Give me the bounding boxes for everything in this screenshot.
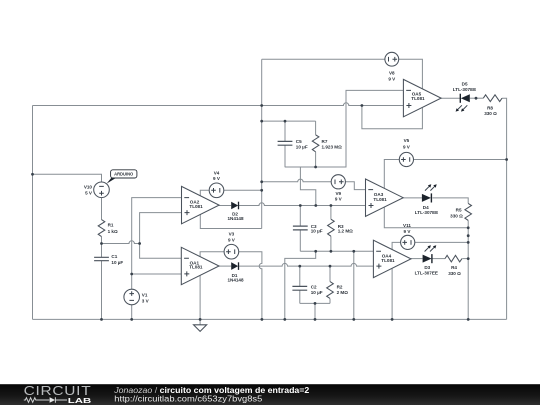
svg-text:10 µF: 10 µF — [311, 229, 323, 234]
wire D4 to R5 corner — [432, 198, 468, 204]
svg-text:V10: V10 — [84, 185, 93, 190]
svg-text:V9: V9 — [335, 191, 341, 196]
svg-text:R1: R1 — [108, 223, 114, 228]
voltage source V11 9V — [401, 223, 415, 249]
node dot V11 x468 — [467, 241, 470, 244]
node dot C5 top — [284, 120, 287, 123]
wire C2 R2 bottom bus — [300, 302, 330, 304]
node dot rail x468 — [467, 318, 470, 321]
svg-text:1N4148: 1N4148 — [227, 278, 244, 283]
op-amp OA2 TL081 — [182, 186, 220, 223]
svg-text:3 V: 3 V — [142, 298, 150, 303]
node dot C2 top — [298, 265, 301, 268]
node dot net X V9 line — [260, 180, 263, 183]
svg-text:1.923 MΩ: 1.923 MΩ — [322, 145, 343, 150]
wire V10 bottom to R1 — [101, 198, 103, 220]
wire OA4 V- stub to rail — [391, 268, 393, 319]
node dot D5 R8 joint — [475, 97, 478, 100]
wire OA5 output to D5 — [441, 97, 460, 99]
ARDUINO label callout — [107, 170, 137, 184]
svg-text:V8: V8 — [389, 71, 395, 76]
node dot net X V4 — [260, 189, 263, 192]
wire bottom ground rail — [33, 318, 507, 320]
wire C1 bottom to rail — [101, 261, 103, 320]
ground — [194, 319, 207, 331]
wire D3 to R4 — [432, 258, 445, 260]
node dot OA3 V- x468 — [467, 226, 470, 229]
wire V9 right to OA3 - input — [345, 182, 365, 190]
svg-text:V11: V11 — [403, 223, 411, 228]
wire R8 to right rail corner — [502, 98, 507, 319]
svg-text:V5: V5 — [404, 138, 410, 143]
wire C3 top leg — [299, 206, 301, 226]
voltage source V3 9V — [224, 232, 239, 259]
resistor R7 — [312, 135, 342, 152]
wire R2 top leg — [329, 266, 331, 282]
wire top run to V8 — [262, 58, 385, 60]
wire V1 bottom to rail — [131, 305, 133, 320]
wire C2R2 bus drop to rail — [314, 303, 316, 319]
svg-text:V3: V3 — [229, 232, 235, 237]
diode D1 1N4148 — [227, 262, 244, 282]
svg-text:http://circuitlab.com/c653zy7b: http://circuitlab.com/c653zy7bvg8s5 — [114, 394, 263, 403]
capacitor C3 — [293, 224, 323, 234]
svg-text:9 V: 9 V — [335, 197, 343, 202]
wire V4 right to net X — [224, 189, 262, 191]
voltage source V9 9V — [331, 175, 345, 202]
wire OA1 V- stub to rail — [199, 275, 201, 319]
svg-text:330 Ω: 330 Ω — [448, 271, 461, 276]
wire R5 bottom long vertical to rail — [467, 220, 469, 319]
capacitor C5 — [278, 139, 308, 150]
wire R3 top leg — [330, 206, 332, 220]
wire net X vertical — [261, 59, 263, 228]
wire OA4 output to D3 — [411, 258, 423, 260]
node dot rail V1 — [130, 318, 133, 321]
op-amp OA4 TL081 — [373, 240, 411, 277]
wire net X to V9 left, hop over x=300.4 — [262, 179, 332, 182]
wire V10 top branch — [33, 174, 102, 182]
svg-text:9 V: 9 V — [213, 176, 221, 181]
svg-text:10 µF: 10 µF — [296, 145, 308, 150]
node dot C3 top — [299, 204, 302, 207]
op-amp OA5 TL081 — [403, 79, 441, 116]
resistor R4 — [445, 255, 462, 276]
wire D1 to OA4 + input, hops at 284.8 and 353.8 — [239, 263, 373, 266]
wire top horizontal to OA5 + input, hop over x=346 — [33, 103, 404, 106]
svg-text:TL081: TL081 — [189, 265, 203, 270]
resistor R8 — [483, 95, 502, 116]
logo diode glyph — [50, 397, 56, 403]
svg-text:D5: D5 — [462, 81, 468, 86]
voltage source V8 9V — [385, 52, 399, 81]
FOOTER — [0, 384, 540, 405]
svg-text:R8: R8 — [487, 106, 493, 111]
wire OA1 V+ stub to V3 — [200, 252, 224, 257]
op-amp OA3 TL081 — [366, 179, 404, 216]
svg-text:330 Ω: 330 Ω — [484, 111, 497, 116]
wire OA3 V- stub to x=468 — [384, 207, 468, 228]
svg-text:TL081: TL081 — [189, 204, 203, 209]
svg-text:LTL-307EE: LTL-307EE — [453, 87, 476, 92]
wire R7 bottom leg — [315, 152, 317, 167]
wire OA2 + input to node down to OA1 - input — [140, 213, 182, 259]
wire D5 to R8 — [470, 97, 484, 99]
node dot rail V3 — [261, 318, 264, 321]
node dot net X top plus line — [260, 104, 263, 107]
wire V8 right to OA5 V+ stub — [399, 59, 423, 89]
wire C5 R7 top bus — [262, 120, 316, 122]
resistor R1 — [98, 220, 118, 237]
node dot R1/C1 — [100, 242, 103, 245]
wire R2 bottom leg — [329, 299, 331, 304]
wire OA2 output to D2 — [219, 205, 231, 207]
svg-text:R2: R2 — [337, 285, 343, 290]
wire left border vertical (net to OA5 + input) — [32, 106, 34, 320]
wire OA5 V- loop — [362, 106, 423, 129]
svg-text:1N4148: 1N4148 — [227, 216, 244, 221]
svg-text:ARDUINO: ARDUINO — [114, 172, 134, 177]
node dot R3 top — [330, 204, 333, 207]
voltage source V4 9V — [209, 170, 224, 197]
node dot V5 right rail — [505, 158, 508, 161]
node dot rail x315 — [314, 318, 317, 321]
wire C3 bottom leg — [299, 230, 301, 251]
LED D3 LTL-307EE — [415, 245, 438, 275]
node dot OA5 V- tap — [361, 104, 364, 107]
node dot R7 bottom — [314, 166, 317, 169]
svg-text:9 V: 9 V — [403, 144, 411, 149]
wire R7 top leg — [315, 121, 317, 135]
node dot rail x353.8 — [352, 318, 355, 321]
svg-text:D3: D3 — [424, 265, 430, 270]
voltage source V5 9V — [399, 138, 413, 166]
capacitor C1 — [94, 254, 123, 265]
wire C2 top leg — [299, 266, 301, 286]
resistor R2 — [327, 282, 349, 299]
capacitor C2 — [292, 285, 322, 296]
LED D5 LTL-307EE — [453, 81, 476, 111]
node dot OA2+ drop — [138, 242, 141, 245]
svg-text:10 µF: 10 µF — [111, 260, 123, 265]
wire OA1 output to D1 — [219, 265, 231, 267]
svg-text:TL081: TL081 — [381, 258, 395, 263]
wire C5R7 bottom jog down to OA3 + line — [300, 167, 315, 206]
node dot C2R2 bus drop — [314, 302, 317, 305]
node dot rail ground — [199, 318, 202, 321]
svg-text:V1: V1 — [142, 292, 148, 297]
wire OA3 output to D4 — [403, 197, 422, 199]
svg-text:10 µF: 10 µF — [311, 290, 323, 295]
wire OA2 - input down to V1 top — [132, 198, 182, 290]
wire OA2 V+ stub to V4 — [200, 190, 209, 196]
wire R3 bottom leg — [330, 236, 332, 251]
node dot OA1+ / V1 — [130, 273, 133, 276]
svg-text:TL081: TL081 — [411, 96, 425, 101]
svg-text:R7: R7 — [322, 139, 328, 144]
svg-text:LTL-307EE: LTL-307EE — [415, 271, 438, 276]
svg-text:V4: V4 — [214, 170, 220, 175]
node dot R2 top — [329, 265, 332, 268]
svg-text:C5: C5 — [296, 139, 302, 144]
svg-text:9 V: 9 V — [404, 229, 412, 234]
svg-text:330 Ω: 330 Ω — [450, 214, 463, 219]
wire OA1 + input line — [132, 273, 182, 275]
wire C5 R7 bottom bus to OA5 - input — [285, 90, 404, 167]
wire C3 R3 bottom bus to OA4 - input — [300, 250, 373, 252]
node dot net X C5R7 top — [260, 120, 263, 123]
node dot OA4- drop — [352, 250, 355, 253]
wire OA3 V+ stub to V5 — [384, 160, 399, 189]
resistor R5 — [450, 203, 471, 220]
wire D2 to OA3 + input, hop over net X — [239, 203, 366, 206]
svg-text:LAB: LAB — [68, 396, 91, 405]
wire R1 bottom to node — [101, 237, 103, 244]
wire C5 top leg — [284, 121, 286, 141]
wire C5 bottom leg — [284, 145, 286, 167]
wire node to x=139.6, hop over x=131.7 — [102, 241, 140, 244]
wire V5 right to right rail — [414, 159, 507, 161]
svg-text:C2: C2 — [311, 285, 317, 290]
wire C2 bottom leg — [299, 290, 301, 303]
node dot joint x468 — [467, 234, 470, 237]
resistor R3 — [328, 219, 354, 236]
svg-text:R4: R4 — [451, 265, 457, 270]
svg-text:TL081: TL081 — [373, 197, 387, 202]
node dot bus drop x315.7 — [314, 250, 317, 253]
LED D4 LTL-307EE — [415, 184, 438, 215]
node dot rail x284.8 — [283, 318, 286, 321]
wire V11 right to x=468 — [415, 241, 468, 243]
svg-text:LTL-307EE: LTL-307EE — [415, 210, 438, 215]
svg-text:1 kΩ: 1 kΩ — [108, 229, 118, 234]
svg-text:1.2 MΩ: 1.2 MΩ — [338, 229, 353, 234]
svg-text:9 V: 9 V — [388, 76, 396, 81]
svg-text:5 V: 5 V — [85, 191, 93, 196]
node dot jog on OA3+ line — [314, 204, 317, 207]
svg-text:2 MΩ: 2 MΩ — [337, 290, 349, 295]
logo resistor glyph — [24, 398, 50, 403]
svg-text:C1: C1 — [111, 254, 117, 259]
wire node to C1 top — [101, 244, 103, 258]
diode D2 1N4148 — [227, 202, 244, 222]
node dot left border / V10 branch — [31, 173, 34, 176]
wire V3 right down to rail, hop over D1 line — [239, 252, 262, 320]
voltage source V10 5V — [84, 182, 109, 198]
node dot rail C1 — [100, 318, 103, 321]
svg-text:R5: R5 — [456, 207, 462, 212]
wire OA4 - input drop to rail — [353, 251, 355, 319]
wire R4 to x=468 — [462, 258, 468, 260]
wire OA4 V+ stub to V11 — [392, 242, 401, 249]
wire OA2 V- loop — [200, 214, 261, 228]
svg-text:9 V: 9 V — [228, 238, 236, 243]
voltage source V1 3V — [124, 289, 150, 305]
node dot R3 bottom — [330, 250, 333, 253]
node dot rail OA4 V- — [391, 318, 394, 321]
op-amp OA1 TL081 — [181, 247, 219, 284]
node dot R4 x468 — [467, 257, 470, 260]
wire bottom bus drop to rail via x=284.8 — [285, 251, 316, 319]
